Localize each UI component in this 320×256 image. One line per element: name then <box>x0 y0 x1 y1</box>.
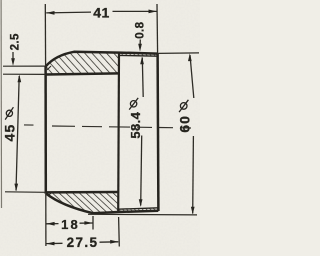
part outline: bottom outer curve + flat bottom <box>46 194 158 214</box>
paper grain overlay <box>0 0 200 256</box>
extension line right top (for 41) <box>156 4 159 54</box>
svg-text:60: 60 <box>176 115 192 133</box>
part outline: right face (rim edge-on) <box>156 53 159 211</box>
extension line left top (for 41) <box>44 4 46 66</box>
dimension 45 dia: bottom extension <box>5 191 46 194</box>
dimension 60 dia: extension lines <box>158 52 199 55</box>
dimension 27.5: right extension line <box>118 217 121 247</box>
dimension 41: right arrowhead <box>149 10 157 14</box>
dimension 60 dia: line segments with arrows <box>190 55 194 98</box>
dimension 0.8: down arrow above strip <box>139 40 141 46</box>
extension line left bottom (for 18/27.5) <box>45 194 47 246</box>
svg-text:45: 45 <box>2 124 18 142</box>
svg-text:0.8: 0.8 <box>135 21 147 38</box>
part outline: inner top surface (bore 45) <box>46 73 119 74</box>
hatched top wall section <box>46 52 119 75</box>
dimension 45 dia: diameter symbol <box>5 107 13 119</box>
dimension 58.4 dia: line segments with arrows <box>141 58 144 98</box>
svg-text:18: 18 <box>61 217 80 232</box>
svg-text:41: 41 <box>93 5 110 21</box>
dimension 45 dia: dimension line (shared up arrow with 2.5) <box>16 76 19 191</box>
dimension 60 dia: diameter symbol <box>179 100 188 112</box>
part outline: left face (rim edge-on) <box>44 66 47 194</box>
svg-text:27.5: 27.5 <box>67 235 99 250</box>
dimension 58.4 dia: diameter symbol <box>129 98 138 110</box>
hatched thin strip bottom right <box>118 208 158 212</box>
hatched bottom wall section <box>46 192 118 213</box>
part outline: thin strip inner line bottom <box>118 208 158 209</box>
dimension 41: left arrowhead <box>46 11 54 15</box>
dimension 41: line segments <box>46 11 91 14</box>
dimension 2.5: down arrow <box>12 52 14 60</box>
extra hatch ticks at wall tips <box>47 66 52 196</box>
part outline: shoulder step edge-on <box>117 53 120 212</box>
centerline (dashed axis) <box>24 125 191 128</box>
dimension 18: right extension line <box>92 216 94 230</box>
svg-text:58.4: 58.4 <box>128 111 143 138</box>
part outline: thin strip inner line top <box>119 54 158 57</box>
part outline: inner bottom surface (bore 45) <box>46 191 118 194</box>
svg-text:2.5: 2.5 <box>9 33 21 50</box>
dimension 2.5: extension lines <box>3 65 46 67</box>
hatched thin strip top right <box>119 53 158 57</box>
paper background <box>0 0 200 256</box>
dimension 18: line segments <box>46 223 58 225</box>
scan edge artifact left <box>0 0 2 208</box>
part outline: top outer curve + flat top surface <box>46 52 158 66</box>
dimension 27.5: line segments <box>46 242 62 244</box>
